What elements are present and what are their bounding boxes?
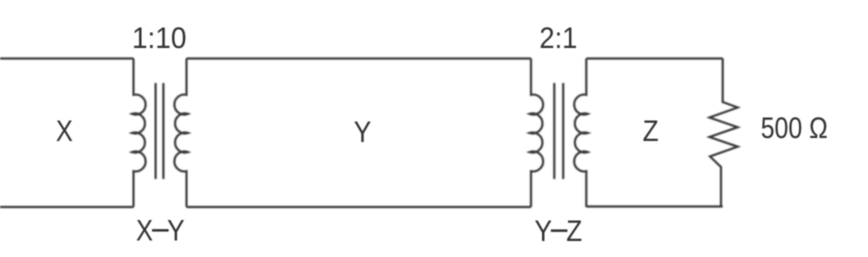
svg-text:X: X [56, 115, 73, 148]
svg-text:1:10: 1:10 [132, 22, 187, 55]
svg-text:Y: Y [167, 215, 185, 248]
transformer T1 primary winding (X side) [132, 59, 146, 208]
transformer T2 primary winding (Y side) [530, 59, 544, 208]
label X-Y dash [152, 229, 169, 232]
svg-text:X: X [136, 215, 153, 248]
svg-text:2:1: 2:1 [539, 22, 577, 55]
label Y-Z dash [551, 229, 568, 232]
transformer T1 secondary winding (Y side) [174, 59, 188, 208]
network Y box top and bottom wires [187, 59, 532, 208]
network X box (open at left edge) [0, 59, 134, 208]
svg-text:Y: Y [535, 215, 553, 248]
transformer T2 core [554, 83, 563, 179]
resistor R1 500 ohm (zigzag on Z box right edge) [710, 59, 738, 207]
svg-text:Y: Y [354, 116, 372, 149]
transformer T2 secondary winding (Z side) [574, 59, 588, 208]
network Z box top, bottom wires [586, 59, 722, 207]
transformer T1 core [156, 83, 164, 179]
svg-text:500 Ω: 500 Ω [761, 112, 828, 145]
svg-text:Z: Z [643, 115, 659, 148]
svg-text:Z: Z [566, 215, 582, 248]
